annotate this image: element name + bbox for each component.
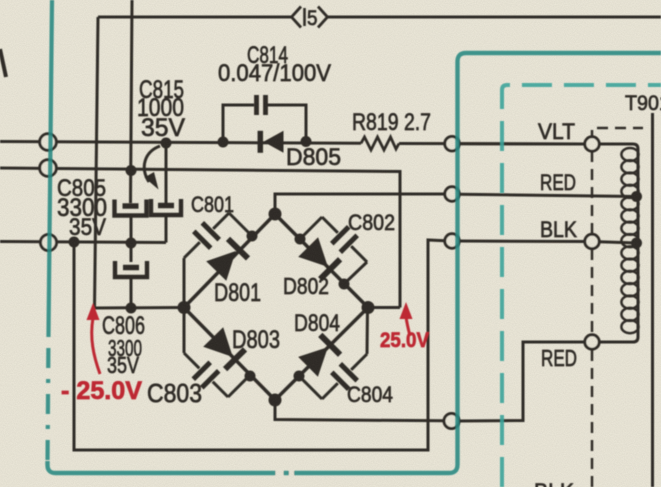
transformer T901 winding: [599, 144, 638, 342]
wire bridge bottom AC feed: [275, 400, 445, 421]
board boundary teal solid bottom/right/top: [48, 53, 661, 473]
node ground junction x131: [126, 238, 137, 249]
wire AC feed to bottom RED: [459, 342, 586, 421]
node C802 lower: [339, 279, 350, 290]
wire BLK lead to transformer: [459, 240, 585, 244]
node terminal AC bottom: [444, 414, 459, 429]
node terminal left rail y141: [40, 134, 57, 151]
node terminal left rail y168: [40, 160, 57, 177]
wire RED tap lead from bridge top: [275, 194, 445, 214]
diode D801: [206, 251, 236, 281]
node terminal mid y194: [445, 187, 459, 201]
wire bridge diagonal T-R: [275, 214, 368, 308]
node C815 top junction: [161, 138, 172, 149]
annotation -25V arrow: [87, 303, 100, 320]
wire C814 branch: [223, 105, 254, 142]
wire -25V rail y308: [95, 306, 184, 310]
node +rail junction x131: [126, 165, 137, 176]
capacitor C806 (electrolytic): [123, 265, 139, 271]
node bridge bottom corner: [269, 394, 282, 407]
wire C805 negative lead / C806 positive lead: [130, 216, 133, 263]
diode D805: [264, 131, 284, 153]
wire bridge right output to +rail: [368, 306, 400, 309]
wire +25V rail y170: [0, 168, 400, 308]
wire left drop from top bus: [95, 17, 99, 308]
capacitor C814 plates: [254, 95, 259, 115]
node bridge top corner: [269, 208, 282, 221]
node bridge right corner: [362, 301, 375, 314]
wire bridge diagonal B-R: [275, 308, 368, 401]
capacitor C801 branch: [184, 242, 200, 258]
capacitor C805 (electrolytic): [123, 203, 139, 209]
node terminal mid y143: [445, 137, 459, 151]
board boundary teal dashed inner: [502, 85, 661, 487]
wire C815 negative lead: [165, 215, 168, 243]
node transformer tap RED: [631, 191, 642, 202]
node ground loop junction x74: [69, 237, 80, 248]
board boundary teal solid left vertical: [49, 0, 53, 333]
label pointer arc for C815: [144, 146, 160, 182]
node C814 right junction: [301, 136, 312, 147]
wire bridge diagonal L-B: [184, 308, 275, 401]
node terminal transformer VLT: [585, 137, 599, 151]
node C802 upper: [295, 234, 306, 245]
node C804 start: [294, 371, 305, 382]
transformer boundary dashed box top: [592, 128, 643, 141]
node C803 rejoin: [245, 371, 256, 382]
wire VLT lead: [459, 142, 585, 145]
diode D802: [298, 237, 328, 267]
wire vertical feed at x131 from top edge: [131, 0, 133, 203]
node terminal mid y241: [445, 234, 459, 248]
wire C815 positive lead: [165, 143, 168, 204]
node -25V junction: [126, 303, 137, 314]
board boundary teal chain left vertical lower: [48, 333, 49, 464]
transformer core line right: [651, 113, 654, 487]
capacitor C803 branch: [184, 353, 199, 368]
wire ground rail y242: [0, 242, 166, 243]
node terminal transformer RED bottom: [585, 335, 599, 349]
node C814 left junction: [218, 137, 229, 148]
capacitor C802 branch: [322, 217, 338, 233]
wire main rail y142: [0, 142, 361, 144]
wire top bus to connector 15: [98, 16, 291, 19]
wire C806 negative lead: [130, 277, 133, 308]
diode D804: [298, 347, 328, 377]
capacitor C815 (electrolytic): [158, 203, 174, 209]
diode D803: [203, 327, 233, 357]
node transformer tap BLK: [631, 238, 642, 249]
transformer boundary dashed vertical: [591, 151, 594, 234]
wire ground return loop: [74, 240, 445, 450]
capacitor C804 branch: [322, 383, 338, 399]
node bridge left corner: [178, 301, 191, 314]
board boundary teal bottom line scan gaps: [276, 468, 284, 478]
wire edge stub top-left: [0, 49, 6, 77]
resistor R819: [361, 137, 399, 150]
node terminal left rail y242: [41, 235, 57, 251]
annotation +25V arrow: [400, 302, 413, 319]
node C801 rejoin: [247, 231, 258, 242]
node connector 15 symbol: [292, 7, 302, 28]
wire bridge diagonal L-T: [184, 214, 275, 308]
node terminal transformer BLK: [585, 234, 599, 248]
